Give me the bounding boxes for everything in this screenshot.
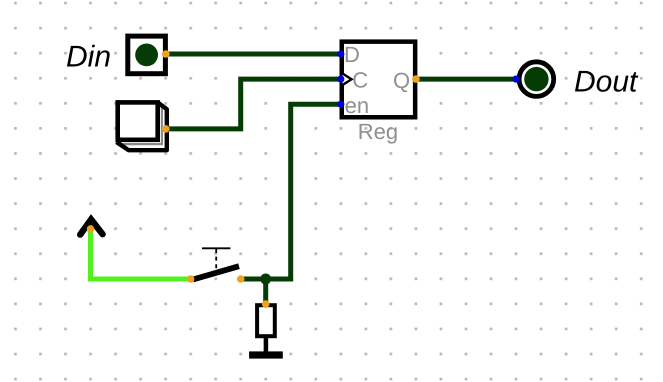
output connection dot power [87, 225, 95, 233]
svg-text:C: C [352, 68, 368, 93]
input connection dot register C [337, 76, 344, 83]
wire Din to register D input [166, 52, 341, 57]
pull-down resistor R1 [257, 305, 275, 352]
input connection dot Dout pin [512, 76, 519, 83]
svg-text:Din: Din [66, 41, 111, 74]
input pin Din [128, 36, 166, 74]
ground [249, 351, 283, 358]
wire register en input down to switch net [241, 104, 341, 279]
input connection dot register D [337, 50, 344, 57]
wire junction to pull resistor [263, 277, 268, 305]
connection dot switch left terminal [187, 275, 195, 283]
output connection dot button [162, 125, 170, 133]
wire register Q output to Dout [416, 77, 516, 82]
input connection dot register en [337, 101, 344, 108]
wire power supply to switch (logic high) [91, 229, 191, 279]
output pin Dout [519, 62, 554, 97]
svg-text:D: D [344, 42, 360, 67]
switch S1 (open lever) [193, 248, 239, 279]
output connection dot Q [412, 75, 420, 83]
wire button to register C input [166, 79, 341, 129]
connection dot resistor top terminal [262, 300, 270, 308]
button (clock/enable push button) [116, 102, 166, 150]
connection dot switch right terminal [237, 275, 245, 283]
svg-text:Q: Q [393, 68, 410, 93]
svg-text:en: en [345, 93, 369, 118]
output connection dot Din pin [162, 50, 170, 58]
register U1 Reg [342, 42, 415, 144]
clock chevron on C pin [343, 74, 352, 86]
junction node (wire joint) [260, 274, 271, 285]
svg-text:Reg: Reg [358, 119, 398, 144]
power supply symbol (VDD chevron) [80, 220, 102, 235]
svg-text:Dout: Dout [574, 66, 639, 99]
